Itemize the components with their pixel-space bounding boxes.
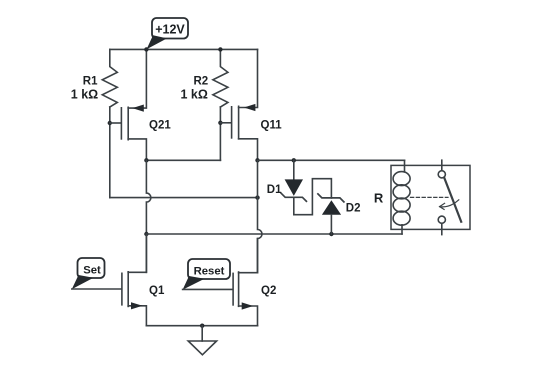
svg-text:R1: R1 — [83, 76, 98, 88]
resistor R1 — [71, 49, 118, 107]
resistor R2 — [180, 49, 227, 107]
wire R1 bottom to Q21 gate to cross-coupling — [109, 107, 111, 198]
node left vertical meets relay return wire — [144, 232, 148, 236]
wire cross-couple Q21 gate to Q11 source — [110, 197, 258, 199]
svg-text:D2: D2 — [346, 202, 361, 214]
node Q21 gate junction — [108, 121, 112, 125]
wire R2 bottom to Q11 gate down to cross wire — [219, 107, 221, 160]
relay box — [391, 165, 470, 229]
ground — [188, 326, 216, 355]
node Q11 gate junction — [218, 121, 222, 125]
power label +12V — [147, 18, 188, 49]
svg-text:Set: Set — [83, 264, 101, 276]
node Q21 drain / +12V tap — [144, 47, 148, 51]
switch motion arrow — [440, 200, 459, 210]
svg-text:1 kΩ: 1 kΩ — [180, 88, 207, 102]
diode D2 zener — [318, 194, 361, 234]
node ground tap — [200, 324, 204, 328]
svg-text:R2: R2 — [193, 76, 208, 88]
svg-text:1 kΩ: 1 kΩ — [71, 88, 98, 102]
switch actuation dashed link — [411, 196, 449, 198]
wire Q21 source down to Q1 drain with hop over cross wire — [146, 160, 151, 272]
node D1 anode tap — [292, 158, 296, 162]
wire Set to Q1 gate — [72, 288, 121, 290]
transistor Q2 — [233, 239, 276, 326]
input label Reset — [183, 259, 230, 290]
node D2 anode tap — [329, 232, 333, 236]
node Q21 source junction — [144, 158, 148, 162]
svg-text:+12V: +12V — [155, 23, 185, 37]
svg-text:R: R — [374, 191, 384, 206]
svg-text:Q1: Q1 — [149, 285, 165, 297]
switch blade — [444, 178, 461, 222]
relay coil R — [374, 160, 410, 234]
transistor Q21 — [110, 49, 172, 160]
switch contact stubs — [441, 160, 443, 234]
svg-text:D1: D1 — [267, 184, 282, 196]
input label Set — [72, 258, 105, 289]
switch contact circles — [438, 171, 445, 224]
node Q11 source junction — [255, 158, 259, 162]
node wire2 meets Q11 source vertical — [255, 195, 259, 199]
svg-text:Q11: Q11 — [261, 120, 283, 132]
wire Q11 source down to Q2 drain with hop over relay return wire — [258, 160, 263, 272]
wire Reset to Q2 gate — [183, 288, 233, 290]
transistor Q1 — [122, 234, 165, 326]
wire +12V rail — [110, 48, 258, 50]
node R2 top on rail — [218, 47, 222, 51]
wire Q11 source to relay coil top — [258, 159, 405, 161]
diode D1 zener — [267, 160, 307, 214]
wire source bus Q1 to Q2 — [146, 325, 257, 327]
svg-text:Q21: Q21 — [149, 119, 171, 131]
wire relay return to Q21 source node — [146, 233, 402, 235]
transistor Q11 — [220, 49, 282, 160]
wire D1 cathode to D2 cathode staple — [294, 179, 332, 215]
wire cross-couple Q21 source to Q11 gate — [146, 159, 220, 161]
svg-text:Q2: Q2 — [261, 285, 276, 297]
svg-text:Reset: Reset — [194, 265, 225, 277]
